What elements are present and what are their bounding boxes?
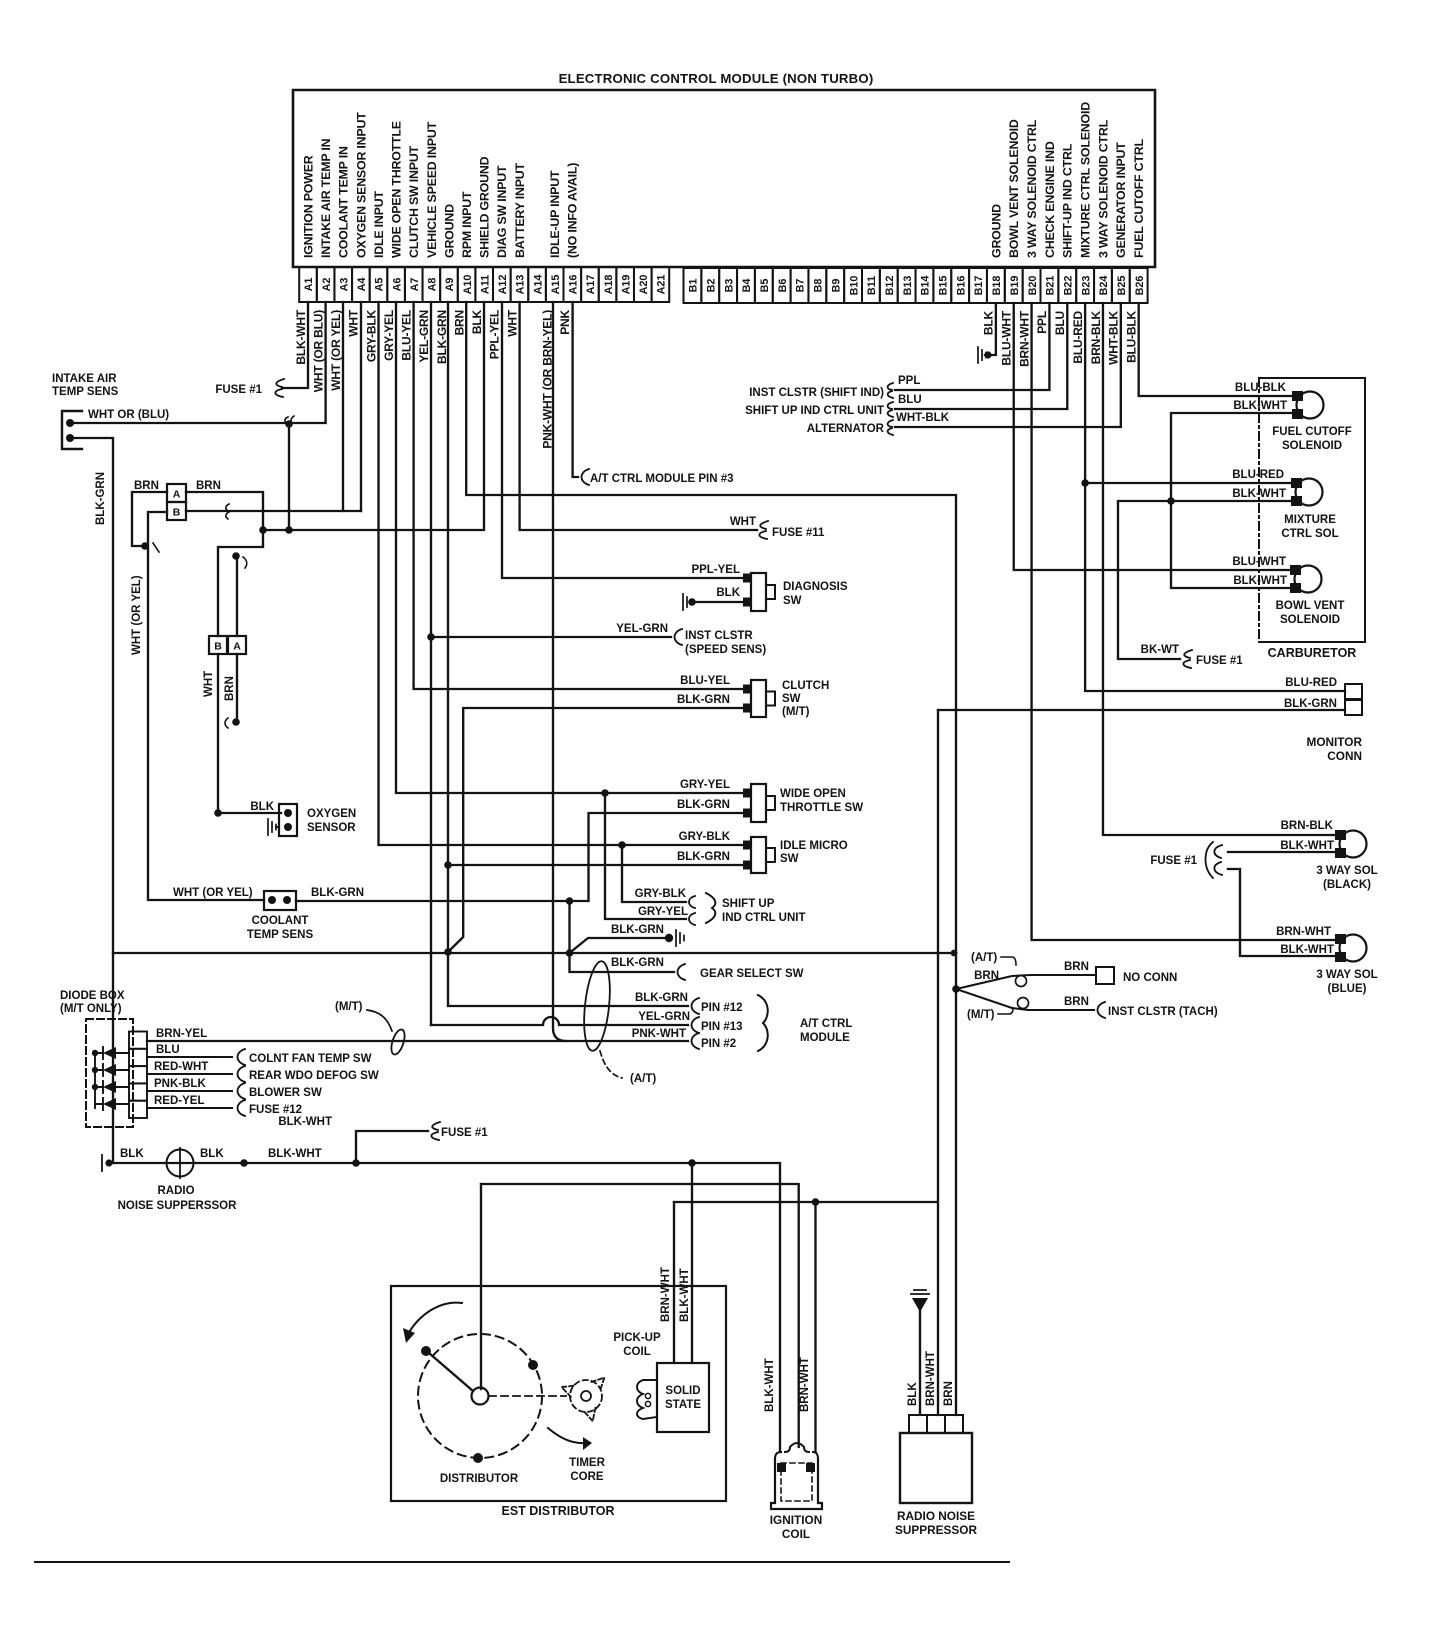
svg-text:B16: B16 (955, 276, 967, 296)
svg-text:BATTERY INPUT: BATTERY INPUT (513, 162, 527, 258)
svg-text:MODULE: MODULE (800, 1032, 850, 1044)
svg-text:A13: A13 (515, 275, 527, 295)
pin box A18 (599, 267, 617, 302)
svg-text:BLK-WHT: BLK-WHT (1232, 488, 1286, 500)
svg-text:BOWL VENT: BOWL VENT (1276, 600, 1345, 612)
wire B23 branch to mixture sol (1085, 482, 1295, 484)
svg-text:BLOWER SW: BLOWER SW (249, 1087, 322, 1099)
svg-text:COLNT FAN TEMP SW: COLNT FAN TEMP SW (249, 1053, 372, 1065)
svg-text:DIODE BOX: DIODE BOX (60, 990, 125, 1002)
wire BLK-GRN ground stub (570, 938, 668, 953)
svg-text:B5: B5 (759, 279, 771, 293)
wire BLK-WHT mixture branch to fuse (1118, 501, 1295, 659)
wire B24 BRN-BLK to 3 way sol black (1103, 303, 1339, 835)
svg-text:BLK-GRN: BLK-GRN (435, 310, 449, 364)
svg-text:GEAR SELECT SW: GEAR SELECT SW (700, 968, 804, 980)
svg-text:CONN: CONN (1327, 749, 1362, 763)
wire BRN-YEL from diode box to AT pin2 (147, 1040, 688, 1042)
svg-text:GRY-BLK: GRY-BLK (635, 888, 687, 900)
svg-text:BLK-GRN: BLK-GRN (95, 472, 107, 525)
svg-text:WHT (OR YEL): WHT (OR YEL) (329, 310, 343, 391)
diode bus dots (92, 1050, 98, 1056)
svg-text:PIN #13: PIN #13 (701, 1021, 743, 1033)
svg-text:(BLACK): (BLACK) (1323, 879, 1371, 891)
distributor dashed circle (418, 1334, 542, 1458)
wire B25 WHT-BLK to alternator (895, 303, 1121, 427)
diode bus vertical (94, 1053, 96, 1108)
svg-text:BLU: BLU (1053, 311, 1067, 335)
distributor rotation arrow (407, 1303, 462, 1336)
svg-text:WHT: WHT (730, 516, 756, 528)
wire A9 BLK-GRN vertical (448, 302, 688, 1006)
svg-text:B10: B10 (848, 276, 860, 296)
pin box B26 (1130, 268, 1148, 303)
svg-text:INTAKE AIR TEMP IN: INTAKE AIR TEMP IN (319, 138, 333, 258)
svg-text:BLK-GRN: BLK-GRN (1284, 698, 1337, 710)
timer core rotor (570, 1380, 602, 1412)
svg-text:B1: B1 (688, 279, 700, 293)
wire B19 BLU-WHT to bowl vent solenoid (1014, 303, 1294, 570)
wire A4 OXYGEN SENSOR vertical (360, 302, 362, 511)
svg-text:B21: B21 (1045, 276, 1057, 296)
svg-text:(A/T): (A/T) (630, 1073, 656, 1085)
svg-text:FUSE #1: FUSE #1 (1150, 855, 1197, 867)
harness oval tail to (A/T) (600, 1051, 622, 1078)
svg-text:SENSOR: SENSOR (307, 822, 356, 834)
distributor rotor arm (429, 1353, 473, 1391)
label (M/T) right (998, 1008, 1013, 1014)
ignition coil top notches (775, 1443, 818, 1459)
EST distributor box (391, 1286, 726, 1501)
svg-text:A10: A10 (462, 275, 474, 295)
big bracket shift-up unit (706, 893, 715, 923)
svg-text:BRN: BRN (224, 676, 236, 701)
svg-text:GROUND: GROUND (989, 204, 1003, 258)
NO CONN box (1096, 967, 1114, 984)
svg-text:INST CLSTR (TACH): INST CLSTR (TACH) (1108, 1006, 1218, 1018)
pin box B6 (773, 268, 791, 303)
svg-text:FUSE #11: FUSE #11 (772, 527, 825, 539)
svg-text:MIXTURE: MIXTURE (1284, 514, 1336, 526)
svg-text:BLU-BLK: BLU-BLK (1235, 382, 1287, 394)
svg-text:FUSE #1: FUSE #1 (215, 384, 262, 396)
svg-text:WHT-BLK: WHT-BLK (1107, 310, 1121, 364)
svg-text:BRN: BRN (1064, 996, 1089, 1008)
left rail end connector (101, 1155, 103, 1171)
pin box A11 (475, 267, 493, 302)
svg-text:PPL: PPL (1035, 311, 1049, 334)
svg-text:BLK-WHT: BLK-WHT (764, 1358, 776, 1412)
wire B20 BRN-WHT to 3 way sol blue (1032, 303, 1339, 940)
svg-text:BLU-BLK: BLU-BLK (1124, 310, 1138, 362)
svg-text:B17: B17 (973, 276, 985, 296)
svg-text:B25: B25 (1116, 276, 1128, 296)
pin box A7 (405, 267, 423, 302)
fuel cutoff solenoid (1297, 392, 1324, 419)
wire shift-up GRY-YEL branch (605, 793, 686, 919)
svg-text:GROUND: GROUND (442, 204, 456, 258)
wire A12 PPL-YEL to diagnosis sw (502, 302, 747, 578)
pin box B12 (880, 268, 898, 303)
svg-text:(M/T ONLY): (M/T ONLY) (60, 1003, 122, 1015)
svg-text:B18: B18 (991, 276, 1003, 296)
svg-text:3 WAY SOLENOID CTRL: 3 WAY SOLENOID CTRL (1096, 119, 1110, 258)
pin box B23 (1076, 268, 1094, 303)
harness oval (580, 960, 613, 1052)
svg-text:BLU-RED: BLU-RED (1285, 677, 1337, 689)
svg-text:(BLUE): (BLUE) (1328, 983, 1367, 995)
svg-text:B20: B20 (1027, 276, 1039, 296)
BRN pigtail to NO CONN (956, 975, 1096, 989)
svg-text:SW: SW (782, 693, 801, 705)
svg-text:BLK-WHT: BLK-WHT (1280, 840, 1334, 852)
tach bracket (1098, 1002, 1106, 1018)
svg-text:GENERATOR INPUT: GENERATOR INPUT (1114, 142, 1128, 258)
svg-text:DIAG SW INPUT: DIAG SW INPUT (495, 165, 509, 258)
svg-text:WHT OR (BLU): WHT OR (BLU) (88, 409, 169, 421)
wire gear select BLK-GRN (570, 953, 675, 972)
svg-text:B: B (173, 507, 181, 519)
svg-text:FUSE #12: FUSE #12 (249, 1104, 302, 1116)
wire BRN-WHT to solid state (673, 1202, 675, 1363)
fuse 1 double bracket right (1214, 845, 1222, 875)
svg-text:BOWL VENT SOLENOID: BOWL VENT SOLENOID (1007, 119, 1021, 258)
diode box connector strip (129, 1032, 147, 1049)
pin box A20 (634, 267, 652, 302)
hook at BRN stub (225, 718, 228, 728)
oxygen sensor connector (279, 804, 297, 836)
ECM module box (ELECTRONIC CONTROL MODULE) (293, 90, 1155, 267)
pin box B10 (844, 268, 862, 303)
svg-text:PNK-BLK: PNK-BLK (154, 1078, 206, 1090)
wire connector-A right BRN to node (186, 492, 263, 530)
svg-text:(NO INFO AVAIL): (NO INFO AVAIL) (566, 163, 580, 258)
svg-text:B8: B8 (813, 279, 825, 293)
svg-text:IND CTRL UNIT: IND CTRL UNIT (722, 912, 805, 924)
svg-text:CLUTCH: CLUTCH (782, 680, 829, 692)
svg-text:RADIO NOISE: RADIO NOISE (897, 1509, 975, 1523)
pin box A9 (440, 267, 458, 302)
pin box B13 (898, 268, 916, 303)
svg-text:A18: A18 (603, 275, 615, 295)
svg-text:B23: B23 (1080, 276, 1092, 296)
svg-text:A6: A6 (391, 278, 403, 292)
wire connector2 A top stub (236, 558, 238, 636)
svg-text:IGNITION: IGNITION (770, 1513, 822, 1527)
svg-text:PICK-UP: PICK-UP (613, 1332, 661, 1344)
wire A2 WHT (OR BLU) from intake sensor (70, 302, 326, 423)
wire B18 BLK to ground (985, 303, 996, 355)
svg-text:B24: B24 (1098, 276, 1110, 296)
svg-text:BLK-GRN: BLK-GRN (311, 887, 364, 899)
wire A3 COOLANT TEMP vertical (342, 302, 344, 511)
pin box B7 (791, 268, 809, 303)
wide open throttle switch body (751, 784, 766, 822)
svg-text:A: A (173, 489, 181, 501)
pin box A16 (564, 267, 582, 302)
svg-text:BLU-RED: BLU-RED (1071, 310, 1085, 363)
svg-text:PPL-YEL: PPL-YEL (488, 310, 502, 359)
svg-text:BRN-BLK: BRN-BLK (1281, 820, 1334, 832)
svg-text:ALTERNATOR: ALTERNATOR (807, 423, 885, 435)
svg-text:PNK-WHT: PNK-WHT (632, 1028, 686, 1040)
pin box A13 (511, 267, 529, 302)
svg-text:BLK-WHT: BLK-WHT (1280, 944, 1334, 956)
svg-text:FUEL CUTOFF: FUEL CUTOFF (1272, 426, 1351, 438)
svg-text:WHT (OR YEL): WHT (OR YEL) (173, 887, 253, 899)
connector A/B (first) (167, 484, 186, 502)
diagnosis BLK ground stub (692, 601, 747, 603)
svg-text:SHIFT UP: SHIFT UP (722, 898, 775, 910)
timer core arrow (548, 1428, 586, 1443)
big bracket AT ctrl module (758, 995, 768, 1051)
svg-text:GRY-YEL: GRY-YEL (382, 310, 396, 361)
svg-text:BLU-YEL: BLU-YEL (400, 310, 414, 361)
svg-text:MIXTURE CTRL SOLENOID: MIXTURE CTRL SOLENOID (1079, 102, 1093, 258)
AT pin brackets (692, 998, 700, 1014)
wire BLK to radio noise suppressor (919, 1311, 921, 1415)
wire A1 BLK-WHT to fuse 1 (282, 302, 308, 388)
radio noise suppressor ground symbol (911, 1290, 929, 1294)
diode at y=1087 (103, 1081, 116, 1093)
svg-text:BLK-GRN: BLK-GRN (677, 851, 730, 863)
svg-text:(SPEED SENS): (SPEED SENS) (685, 644, 766, 656)
wire A8 YEL-GRN vertical (430, 302, 432, 1025)
svg-text:WHT: WHT (203, 671, 215, 697)
svg-text:TIMER: TIMER (569, 1457, 605, 1469)
wire B26 BLU-BLK to fuel cutoff sol (1139, 303, 1296, 396)
svg-text:INST CLSTR (SHIFT IND): INST CLSTR (SHIFT IND) (749, 387, 884, 399)
svg-text:A15: A15 (550, 275, 562, 295)
svg-text:A20: A20 (638, 275, 650, 295)
diode box output wires (147, 1057, 232, 1108)
svg-text:B9: B9 (830, 279, 842, 293)
svg-text:BLK-WHT: BLK-WHT (268, 1148, 322, 1160)
svg-text:A16: A16 (568, 275, 580, 295)
wire BLK-WHT to solid state (691, 1163, 693, 1363)
pin box B3 (719, 268, 737, 303)
svg-text:B11: B11 (866, 276, 878, 295)
svg-text:B: B (214, 641, 222, 653)
svg-text:BRN: BRN (943, 1381, 955, 1406)
svg-text:(M/T): (M/T) (782, 706, 810, 718)
svg-text:A/T CTRL MODULE PIN #3: A/T CTRL MODULE PIN #3 (590, 473, 734, 485)
svg-text:BLK-GRN: BLK-GRN (677, 694, 730, 706)
wire shield rail BLK to A11 (263, 302, 484, 530)
pin box B8 (808, 268, 826, 303)
svg-text:CTRL SOL: CTRL SOL (1281, 528, 1338, 540)
svg-text:BRN-WHT: BRN-WHT (925, 1351, 937, 1406)
distributor center circle (472, 1388, 489, 1405)
distributor circle dots (528, 1360, 538, 1370)
svg-text:BLK: BLK (470, 309, 484, 334)
wire A7 BLU-YEL to clutch sw (414, 302, 747, 689)
pin box B22 (1058, 268, 1076, 303)
svg-text:DISTRIBUTOR: DISTRIBUTOR (440, 1473, 519, 1485)
svg-text:B14: B14 (920, 276, 932, 296)
wire BRN-WHT to ignition coil (814, 1202, 816, 1452)
svg-text:B13: B13 (902, 276, 914, 296)
wire A8 speed sensor branch (431, 636, 671, 638)
connector hooks on A/B wire (226, 504, 229, 519)
svg-text:PNK-WHT (OR BRN-YEL): PNK-WHT (OR BRN-YEL) (540, 310, 554, 449)
pin box A5 (370, 267, 388, 302)
diode at y=1053 (103, 1047, 116, 1059)
svg-text:3 WAY SOL: 3 WAY SOL (1316, 865, 1377, 877)
svg-text:B12: B12 (884, 276, 896, 296)
wire A13 WHT to fuse 11 (520, 302, 757, 530)
svg-text:SW: SW (780, 853, 799, 865)
svg-text:SUPPRESSOR: SUPPRESSOR (895, 1523, 977, 1537)
svg-text:COOLANT: COOLANT (252, 915, 309, 927)
BRN pigtail to tach (956, 989, 1094, 1010)
wire A5 GRY-BLK to idle micro sw (379, 302, 748, 845)
pin box B2 (701, 268, 719, 303)
svg-text:FUSE #1: FUSE #1 (1196, 655, 1243, 667)
svg-text:ELECTRONIC CONTROL MODULE (NON: ELECTRONIC CONTROL MODULE (NON TURBO) (559, 71, 874, 86)
wire connector-B horizontal A3/A4 (186, 510, 361, 512)
pin box B5 (755, 268, 773, 303)
pin box A6 (387, 267, 405, 302)
wire shift-up GRY-BLK branch (622, 845, 686, 902)
svg-text:WHT (OR YEL): WHT (OR YEL) (131, 575, 143, 655)
svg-text:B3: B3 (723, 279, 735, 293)
svg-text:SOLID: SOLID (665, 1385, 700, 1397)
pin box A1 (299, 267, 317, 302)
label (A/T) right (1001, 957, 1016, 965)
ignition coil body (771, 1459, 822, 1509)
wire trunk riser to sensor line (568, 901, 570, 953)
svg-text:BRN-WHT: BRN-WHT (1017, 310, 1031, 367)
svg-text:COIL: COIL (782, 1527, 810, 1541)
svg-text:(A/T): (A/T) (971, 952, 997, 964)
diode at y=1070 (103, 1064, 116, 1076)
svg-text:SW: SW (783, 595, 802, 607)
main BLK-WHT bottom rail (108, 1163, 780, 1452)
svg-text:BLK-GRN: BLK-GRN (635, 992, 688, 1004)
svg-text:WIDE OPEN: WIDE OPEN (780, 788, 846, 800)
svg-text:BRN-WHT: BRN-WHT (660, 1267, 672, 1322)
wire BRN-WHT rail (674, 1201, 938, 1203)
oxygen sensor ground ticks (268, 819, 276, 835)
svg-text:CLUTCH SW INPUT: CLUTCH SW INPUT (407, 145, 421, 258)
svg-text:BLK: BLK (982, 310, 996, 335)
svg-text:INST CLSTR: INST CLSTR (685, 630, 753, 642)
svg-text:BLU-WHT: BLU-WHT (1000, 310, 1014, 365)
pin box A15 (546, 267, 564, 302)
radio noise suppressor box (900, 1433, 972, 1503)
svg-text:BRN: BRN (134, 480, 159, 492)
wire into distributor (480, 1184, 482, 1389)
pin box A3 (334, 267, 352, 302)
svg-text:IDLE-UP INPUT: IDLE-UP INPUT (548, 170, 562, 258)
svg-text:BK-WT: BK-WT (1141, 644, 1179, 656)
svg-text:PPL-YEL: PPL-YEL (691, 564, 740, 576)
pin box B16 (951, 268, 969, 303)
svg-text:OXYGEN: OXYGEN (307, 808, 356, 820)
diode at y=1104 (103, 1098, 116, 1110)
svg-text:WHT: WHT (347, 309, 361, 337)
pin box B18 (987, 268, 1005, 303)
pickup coil inductor symbol (637, 1380, 657, 1419)
intake air temp sensor connector (62, 411, 82, 449)
pin box A12 (493, 267, 511, 302)
svg-text:BRN: BRN (196, 480, 221, 492)
svg-text:NO CONN: NO CONN (1123, 972, 1177, 984)
svg-text:BLU: BLU (898, 394, 922, 406)
svg-text:B26: B26 (1134, 276, 1146, 296)
pin box B17 (969, 268, 987, 303)
svg-text:BRN: BRN (1064, 961, 1089, 973)
svg-text:A4: A4 (356, 278, 368, 292)
svg-text:BLK-WHT: BLK-WHT (1233, 575, 1287, 587)
svg-text:SOLENOID: SOLENOID (1280, 614, 1340, 626)
wire BLK-WHT to 3 way black (1228, 851, 1339, 853)
svg-text:PNK: PNK (558, 309, 572, 334)
svg-text:WHT-BLK: WHT-BLK (896, 412, 950, 424)
svg-text:A3: A3 (338, 278, 350, 292)
svg-text:STATE: STATE (665, 1399, 701, 1411)
carburetor box (1259, 378, 1365, 642)
3 way black solenoid (1340, 831, 1367, 858)
svg-text:A8: A8 (427, 278, 439, 292)
svg-text:IDLE INPUT: IDLE INPUT (372, 191, 386, 258)
svg-text:B15: B15 (938, 276, 950, 296)
wire branch node to fuse-11 rail (285, 420, 293, 428)
svg-text:BLK: BLK (716, 587, 740, 599)
svg-text:B19: B19 (1009, 276, 1021, 296)
svg-text:BRN: BRN (974, 970, 999, 982)
svg-text:BLK-WHT: BLK-WHT (1233, 400, 1287, 412)
svg-text:B22: B22 (1062, 276, 1074, 296)
svg-text:A: A (233, 641, 241, 653)
3 way blue solenoid (1340, 935, 1367, 962)
svg-text:A11: A11 (479, 275, 491, 294)
hook at connector2 stub (243, 557, 247, 568)
wire A6 GRY-YEL to wide open throttle sw (396, 302, 747, 793)
svg-text:GRY-YEL: GRY-YEL (638, 906, 688, 918)
svg-text:COIL: COIL (623, 1346, 650, 1358)
pin box B20 (1023, 268, 1041, 303)
svg-text:MONITOR: MONITOR (1307, 735, 1363, 749)
svg-text:BRN: BRN (452, 310, 466, 335)
svg-text:A7: A7 (409, 278, 421, 292)
wire connector2 B bottom WHT to oxygen sensor (218, 654, 281, 813)
svg-text:IDLE MICRO: IDLE MICRO (780, 840, 848, 852)
pin box B1 (684, 268, 702, 303)
svg-text:RED-YEL: RED-YEL (154, 1095, 204, 1107)
hook at WHT OR YEL junction (153, 543, 159, 552)
svg-text:SHIELD GROUND: SHIELD GROUND (478, 156, 492, 258)
diagnosis switch body (751, 573, 766, 611)
pin box B4 (737, 268, 755, 303)
idle micro switch body (751, 837, 766, 873)
bowl vent solenoid (1295, 566, 1322, 593)
svg-text:CARBURETOR: CARBURETOR (1268, 646, 1357, 660)
svg-text:A1: A1 (303, 278, 315, 292)
speed sensor bracket (675, 629, 683, 645)
ground ticks BLK-GRN stub (676, 930, 684, 946)
wire BLK-GRN trunk horizontal (113, 952, 956, 954)
wire fuse1 second branch to 3 way blue (1228, 869, 1339, 956)
svg-text:A19: A19 (620, 275, 632, 295)
svg-text:TEMP SENS: TEMP SENS (52, 386, 119, 398)
clutch switch body (751, 680, 766, 717)
svg-text:A17: A17 (585, 275, 597, 295)
svg-text:OXYGEN SENSOR INPUT: OXYGEN SENSOR INPUT (354, 112, 368, 258)
svg-text:BLU-WHT: BLU-WHT (1232, 556, 1286, 568)
svg-text:SHIFT-UP IND CTRL: SHIFT-UP IND CTRL (1061, 143, 1075, 258)
